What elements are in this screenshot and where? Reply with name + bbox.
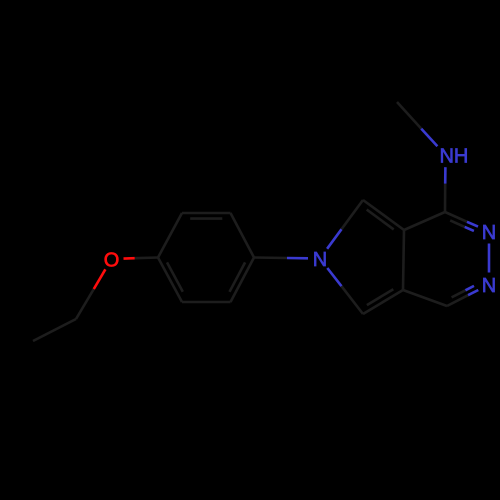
bond C4-N3 inner (C4 half) <box>450 220 465 227</box>
bond C7-C7a inner <box>367 210 394 230</box>
bond O-L (O half) <box>124 257 135 260</box>
bond NH-CH3n (CH3n half) <box>397 102 421 129</box>
bond C7-C7a <box>363 200 404 230</box>
bond N2-C1 (C1 half) <box>447 295 468 306</box>
bond TL-TR <box>182 212 231 215</box>
bond C1-C4a <box>403 290 447 306</box>
bond CH3e-CH2 <box>33 319 76 341</box>
bond BR-BL <box>182 301 231 304</box>
svg-text:N: N <box>482 222 496 244</box>
bond BL-L inner <box>167 262 183 291</box>
bond TL-TR inner <box>190 217 222 220</box>
bond N6-C7 (N6 half) <box>327 229 341 249</box>
svg-text:N: N <box>482 275 496 297</box>
bond N6-C7 (C7 half) <box>342 200 364 229</box>
bond TR-R <box>231 213 255 258</box>
bond C4-N3 (C4 half) <box>445 212 467 222</box>
svg-text:O: O <box>104 249 120 271</box>
bond R-N6 (N6 half) <box>287 257 308 260</box>
bond C4-N3 inner (N3 half) <box>465 227 474 231</box>
svg-text:N: N <box>313 249 327 271</box>
bond C4a-C7a <box>403 230 404 290</box>
bond C4-NH (NH half) <box>444 167 447 183</box>
bond C4-NH (C4 half) <box>444 184 447 212</box>
bond N6-C5 (N6 half) <box>327 268 341 286</box>
bond CH2-O (O half) <box>94 269 106 289</box>
bond C7a-C4 <box>404 212 445 230</box>
bond NH-CH3n (NH half) <box>421 129 437 147</box>
bond R-BR <box>231 258 255 303</box>
bond CH2-O (CH2 half) <box>76 289 94 319</box>
bond N2-C1 inner (N2 half) <box>465 286 474 290</box>
svg-text:NH: NH <box>439 146 468 168</box>
bond L-TL <box>158 213 182 258</box>
bond O-L (L half) <box>135 256 158 259</box>
bond N3-N2 <box>488 244 491 273</box>
bond C5-C4a <box>363 290 403 314</box>
bond N2-C1 (N2 half) <box>468 290 478 295</box>
bond N2-C1 inner (C1 half) <box>452 290 466 297</box>
bond R-BR inner <box>230 262 246 291</box>
bond BL-L <box>158 258 182 303</box>
bond C5-C4a inner <box>367 289 393 305</box>
bond C4-N3 (N3 half) <box>467 222 478 227</box>
bond R-N6 (R half) <box>254 256 287 259</box>
bond N6-C5 (C5 half) <box>342 286 364 314</box>
